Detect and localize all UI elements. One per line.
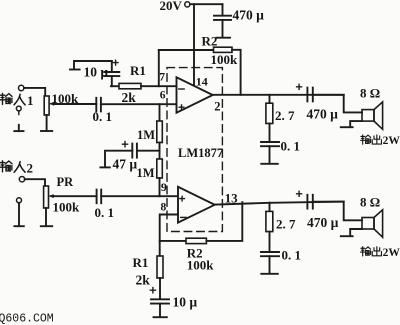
svg-text:8 Ω: 8 Ω (360, 85, 380, 100)
svg-text:14: 14 (196, 74, 208, 88)
svg-text:100k: 100k (52, 91, 80, 106)
svg-text:0. 1: 0. 1 (281, 139, 301, 154)
svg-text:100k: 100k (187, 257, 215, 272)
wire 10u cap to ground (74, 61, 112, 69)
terminal input2 circle (19, 177, 24, 182)
svg-text:2: 2 (214, 99, 220, 113)
svg-text:8 Ω: 8 Ω (360, 194, 380, 209)
wire 47u junction (137, 150, 160, 152)
svg-text:20V: 20V (160, 0, 183, 13)
terminal input2 lower circle (17, 198, 22, 203)
svg-text:PR: PR (57, 175, 75, 189)
svg-text:470 µ: 470 µ (307, 107, 339, 122)
wire input1 to pot (24, 88, 45, 96)
wire to 0.1 cap lower (269, 232, 271, 252)
svg-text:R1: R1 (130, 63, 146, 78)
plus sign 470u upper (297, 84, 302, 89)
svg-text:6: 6 (160, 89, 166, 101)
wire 2.7 lower junction (269, 203, 271, 212)
svg-text:2. 7: 2. 7 (276, 216, 296, 231)
plus sign 10u lower (150, 288, 155, 293)
svg-text:1M: 1M (137, 166, 155, 180)
label input1 Chinese (0, 93, 12, 104)
IC dashed outline LM1877 (167, 68, 222, 232)
wire speaker to ground lower (350, 229, 362, 236)
svg-text:2k: 2k (122, 90, 137, 105)
svg-text:LM1877: LM1877 (178, 146, 223, 160)
capacitor 0.1 lower zobel (261, 251, 279, 253)
wire pot2 to ground (45, 208, 47, 226)
ground bar speaker lower (341, 235, 353, 237)
capacitor 10u lower (151, 298, 169, 300)
terminal input1 lower circle (16, 106, 21, 111)
svg-text:13: 13 (225, 191, 239, 206)
capacitor 0.1 input2 (96, 190, 98, 204)
capacitor 470u supply plates (214, 15, 231, 17)
svg-text:10 µ: 10 µ (84, 65, 109, 80)
capacitor 470u output upper (306, 88, 308, 102)
resistor 2.7 upper (266, 103, 273, 123)
wire feedback vertical to pin7 (158, 50, 160, 86)
ground bar 10u lower (154, 316, 167, 318)
capacitor 0.1 input1 (95, 98, 97, 112)
svg-text:Q606.COM: Q606.COM (0, 313, 54, 325)
svg-text:R1: R1 (133, 255, 149, 270)
capacitor 470u output lower (306, 195, 308, 209)
wire cap to ground (222, 20, 224, 37)
svg-text:7: 7 (159, 72, 165, 84)
svg-text:470 µ: 470 µ (307, 215, 339, 230)
ground bar speaker upper (341, 126, 353, 128)
wire between 1M resistors (159, 143, 161, 160)
wire output pin13 (215, 202, 344, 205)
wire pin6 node to 1M (159, 104, 161, 121)
svg-text:100k: 100k (53, 199, 81, 214)
resistor 1M lower (157, 159, 163, 178)
wire 10u to R1 (111, 85, 119, 87)
wire to ground lower (269, 256, 271, 273)
resistor 2.7 lower (266, 211, 273, 231)
svg-text:2: 2 (27, 160, 34, 175)
speaker lower (362, 218, 374, 230)
wire wiper1 to cap (54, 103, 96, 105)
svg-text:2k: 2k (136, 272, 151, 287)
svg-text:470 µ: 470 µ (233, 7, 265, 22)
ground bar pot1 (41, 130, 52, 132)
wire top feedback (159, 49, 214, 51)
label input2 Chinese (0, 161, 12, 172)
svg-text:2W: 2W (383, 135, 400, 147)
capacitor 10u upper (111, 61, 113, 72)
minus tick U1a (179, 88, 184, 90)
op-amp U1b triangle (178, 187, 215, 223)
plus tick U1a (179, 105, 184, 110)
ground input2 (18, 203, 20, 226)
ground input1 (18, 125, 20, 131)
plus sign 470u lower (297, 191, 302, 196)
svg-text:0. 1: 0. 1 (282, 248, 302, 263)
wire cap to speaker upper (313, 95, 362, 113)
wire R1 to 10u (159, 278, 161, 299)
wire R2 lower to output (206, 202, 242, 241)
capacitor 0.1 upper zobel (261, 141, 279, 143)
svg-text:0. 1: 0. 1 (93, 109, 113, 124)
wire 10u to ground (159, 304, 161, 317)
wiper arrow pot1 (51, 103, 54, 105)
wire cap stem (222, 4, 224, 15)
wire 47u to ground (105, 151, 132, 167)
svg-text:2W: 2W (383, 247, 400, 259)
resistor 1M upper (157, 121, 163, 143)
wire to 0.1 cap (269, 124, 271, 142)
wire speaker to ground upper (350, 121, 362, 127)
wire pot1 to ground (46, 115, 48, 131)
label output 2W lower Chinese (361, 247, 371, 256)
wire cap to speaker lower (313, 202, 362, 221)
wire output pin2 (213, 94, 344, 96)
svg-text:10 µ: 10 µ (173, 295, 198, 310)
wire pin8 feedback (160, 215, 178, 257)
wire cap to pin 6 (101, 103, 177, 105)
wire cap to pin 9 (101, 195, 178, 197)
potentiometer PR 100k input2 (44, 186, 49, 208)
wire 1M to pin9 node (159, 178, 161, 196)
terminal input1 circle (19, 85, 24, 90)
resistor R1 lower 2k (157, 256, 163, 278)
svg-text:1M: 1M (137, 128, 155, 142)
capacitor 47u plates (136, 144, 138, 158)
wire to R2 lower (160, 240, 186, 242)
resistor R2 lower 100k (186, 238, 206, 243)
minus tick U1b (181, 216, 186, 218)
plus sign 10u upper (113, 60, 118, 65)
speaker upper (362, 110, 374, 122)
wire R2 to output (232, 50, 241, 95)
wire R1 to pin 7 (141, 85, 177, 87)
label output 2W upper Chinese (361, 135, 371, 144)
wire 20V rail down to pin 14 (193, 4, 195, 86)
ground bar supply cap (217, 37, 231, 39)
wire input2 to pot (25, 179, 45, 186)
svg-text:2. 7: 2. 7 (275, 108, 295, 123)
svg-text:8: 8 (161, 201, 167, 213)
node 20V supply wire (190, 3, 223, 5)
wire to ground (269, 146, 271, 163)
terminal 20V circle (185, 2, 190, 7)
resistor R1 upper 2k (119, 83, 141, 88)
op-amp U1a triangle (177, 77, 213, 112)
wiper arrow pot2 (50, 195, 54, 197)
wire wiper2 to cap (54, 195, 97, 197)
potentiometer 100k input1 (44, 96, 49, 115)
resistor R2 upper 100k (214, 47, 233, 52)
plus tick U1b (180, 196, 185, 201)
svg-text:0. 1: 0. 1 (95, 205, 115, 220)
svg-text:R2: R2 (202, 34, 218, 49)
svg-text:9: 9 (161, 180, 167, 194)
ground bar pot2 (41, 225, 52, 227)
ground bar upper 10u (70, 69, 80, 71)
wire 2.7 upper junction (269, 95, 271, 103)
ground bar lower zobel (261, 273, 278, 275)
plus sign 47u (122, 142, 127, 147)
svg-text:47 µ: 47 µ (113, 157, 138, 172)
svg-text:100k: 100k (211, 52, 239, 67)
svg-text:1: 1 (27, 93, 34, 108)
ground bar upper zobel (261, 163, 278, 165)
ground bar 47u (100, 166, 109, 168)
